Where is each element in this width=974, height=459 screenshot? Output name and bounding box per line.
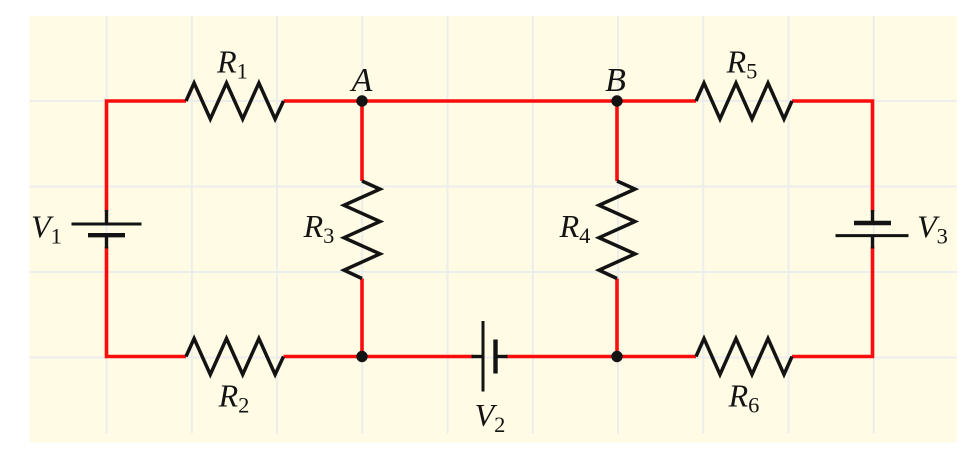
battery V1 [72, 210, 142, 249]
battery V3 [836, 210, 909, 249]
wire R2 to bottom node A' [284, 355, 363, 359]
wire bottom-right: R6 to V3 bottom [792, 247, 873, 357]
wire top-middle: R1 to node A to node B [284, 99, 618, 103]
wire bottom node B' to R6 [617, 355, 696, 359]
resistor R3 [344, 181, 380, 279]
node A junction dot [356, 95, 367, 106]
wire node B to R4 [615, 101, 619, 181]
wire node A to R3 [360, 101, 364, 181]
svg-text:A: A [350, 62, 373, 99]
wire bottom node A' to V2 [362, 355, 473, 359]
resistor R2 [186, 339, 284, 375]
wire top-left: V1 top to R1 [107, 101, 187, 212]
resistor R4 [599, 181, 635, 279]
resistor R1 [186, 83, 284, 119]
bottom junction dot below B [611, 351, 622, 362]
battery V2 [472, 321, 508, 392]
resistor R6 [696, 339, 792, 375]
wire V2 to bottom node B' [506, 355, 617, 359]
wire node B to R5 [617, 99, 696, 103]
wire R3 to bottom node A' [360, 279, 364, 357]
resistor R5 [696, 83, 792, 119]
svg-text:B: B [605, 62, 626, 99]
wire top-right: R5 to V3 top [792, 101, 873, 212]
node B junction dot [611, 95, 622, 106]
wire bottom-left: V1 bottom to R2 [107, 247, 187, 357]
bottom junction dot below A [356, 351, 367, 362]
wire R4 to bottom node B' [615, 279, 619, 357]
